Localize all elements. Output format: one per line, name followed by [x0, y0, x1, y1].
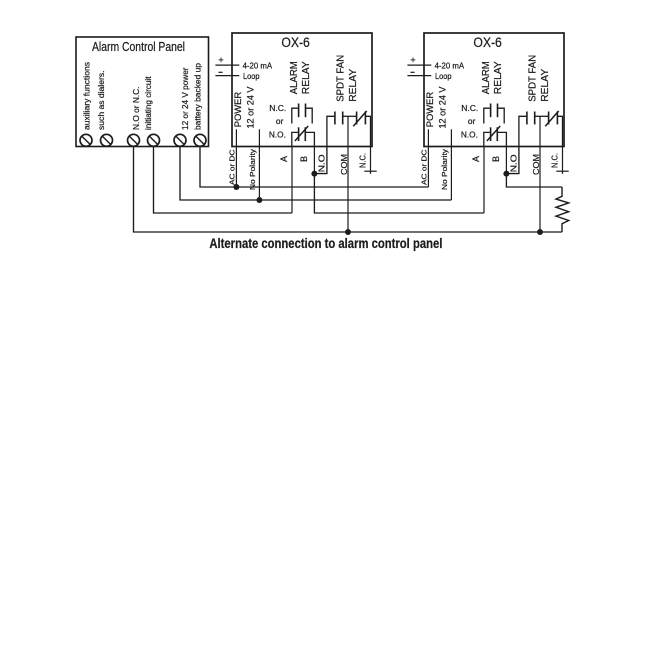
svg-text:Loop: Loop: [243, 72, 260, 81]
svg-text:+: +: [410, 55, 415, 65]
svg-text:4-20 mA: 4-20 mA: [435, 61, 465, 70]
svg-text:A: A: [279, 156, 289, 162]
svg-text:RELAY: RELAY: [348, 68, 359, 101]
U2 minus polarity mark: [410, 71, 414, 73]
U1 power terminal stub (AC or DC): [235, 129, 237, 187]
screw terminal initiating 2: [148, 134, 160, 146]
U2 SPDT fan relay contact symbol: [519, 116, 527, 146]
U2 COM terminal wire: [539, 116, 541, 232]
U2 N.C terminal stub (unused): [562, 147, 564, 174]
wire: U2 terminal B to end-of-line resistor: [506, 174, 562, 187]
svg-text:auxiliary functions: auxiliary functions: [83, 62, 92, 130]
U2 alarm relay N.O. contact symbol (to terminals A,B): [484, 132, 490, 146]
U2 terminal A wire: [483, 147, 485, 214]
U2 junction dot COM on bottom bus: [537, 229, 543, 235]
svg-text:AC or DC: AC or DC: [230, 150, 237, 186]
U1 junction dot B / N.O: [311, 171, 317, 177]
svg-text:N.C.: N.C.: [358, 153, 367, 168]
svg-text:B: B: [299, 156, 309, 162]
U1 4-20 mA loop - lead: [215, 75, 239, 77]
junction dot No-Polarity U1: [256, 197, 262, 203]
U1 minus polarity mark: [218, 71, 222, 73]
svg-text:SPDT FAN: SPDT FAN: [335, 55, 346, 102]
U1 alarm relay N.C. contact symbol: [292, 108, 298, 123]
U1 N.C terminal end tick: [364, 170, 376, 172]
svg-text:or: or: [468, 116, 476, 126]
U2 N.C terminal end tick: [556, 170, 568, 172]
svg-text:A: A: [471, 156, 481, 162]
screw terminal aux 2: [101, 134, 113, 146]
svg-text:RELAY: RELAY: [540, 68, 551, 101]
U2 terminal B wire to junction: [505, 147, 507, 174]
svg-text:initiating circuit: initiating circuit: [144, 76, 153, 130]
svg-text:such as dialers.: such as dialers.: [97, 71, 106, 131]
svg-text:N.O.: N.O.: [269, 130, 286, 140]
svg-text:+: +: [218, 55, 223, 65]
screw terminal initiating 1: [128, 134, 140, 146]
U2 junction dot B / N.O: [503, 171, 509, 177]
U1 SPDT fan relay contact symbol: [327, 116, 335, 146]
svg-text:N.O.: N.O.: [461, 130, 478, 140]
alarm control panel box: [76, 37, 209, 147]
svg-text:RELAY: RELAY: [301, 61, 312, 94]
wire: bottom bus from initiating screw 1 to resistor: [134, 146, 563, 232]
OX-6 module U2 outline: [424, 33, 564, 147]
svg-text:Alarm Control Panel: Alarm Control Panel: [92, 40, 185, 54]
svg-text:RELAY: RELAY: [493, 61, 504, 94]
svg-text:No Polarity: No Polarity: [442, 148, 449, 190]
U2 N.O terminal stub joining B: [506, 147, 519, 174]
U1 4-20 mA loop + lead: [215, 64, 239, 66]
svg-text:battery backed up: battery backed up: [194, 62, 203, 130]
svg-text:or: or: [276, 116, 284, 126]
U2 4-20 mA loop - lead: [407, 75, 431, 77]
screw terminal aux 1: [80, 134, 92, 146]
svg-text:N.O: N.O: [509, 154, 518, 172]
wire: power screw 2 to AC-or-DC bus (U1,U2): [200, 146, 428, 187]
U1 N.C terminal stub (unused): [370, 147, 372, 174]
svg-text:COM: COM: [340, 154, 349, 175]
OX-6 module U1 outline: [232, 33, 372, 147]
wire: initiating screw 2 to terminal A of U1: [154, 146, 293, 213]
U1 power terminal stub (No Polarity): [258, 129, 260, 200]
svg-text:COM: COM: [532, 154, 541, 175]
U2 power terminal stub (No Polarity): [450, 129, 452, 200]
svg-text:N.C.: N.C.: [461, 103, 478, 113]
screw terminal power 1: [174, 134, 186, 146]
U1 terminal B wire to junction: [313, 147, 315, 174]
svg-text:12 or 24 V power: 12 or 24 V power: [181, 67, 190, 130]
svg-text:4-20 mA: 4-20 mA: [243, 61, 273, 70]
svg-text:N.O: N.O: [317, 154, 326, 172]
screw terminal power 2: [194, 134, 206, 146]
wire: U1 terminal B to U2 terminal A: [314, 174, 484, 213]
wire: power screw 1 to No-Polarity bus (U1,U2): [180, 146, 451, 200]
U2 4-20 mA loop + lead: [407, 64, 431, 66]
U1 N.O terminal stub joining B: [314, 147, 327, 174]
svg-text:12 or 24 V: 12 or 24 V: [245, 86, 256, 129]
svg-text:N.O or N.C.: N.O or N.C.: [132, 87, 141, 131]
svg-text:B: B: [491, 156, 501, 162]
svg-text:OX-6: OX-6: [473, 34, 502, 50]
svg-text:Loop: Loop: [435, 72, 452, 81]
U2 alarm relay N.C. contact symbol: [484, 108, 490, 123]
svg-text:SPDT FAN: SPDT FAN: [527, 55, 538, 102]
junction dot AC-or-DC U1: [233, 184, 239, 190]
svg-text:ALARM: ALARM: [481, 61, 492, 94]
end-of-line resistor R1: [556, 187, 569, 232]
svg-text:POWER: POWER: [425, 92, 436, 128]
svg-text:N.C.: N.C.: [550, 153, 559, 168]
svg-text:N.C.: N.C.: [269, 103, 286, 113]
svg-text:No Polarity: No Polarity: [250, 148, 257, 190]
U2 power terminal stub (AC or DC): [427, 129, 429, 187]
svg-text:Alternate connection to alarm: Alternate connection to alarm control pa…: [209, 236, 442, 251]
U1 terminal A wire: [291, 147, 293, 214]
svg-text:POWER: POWER: [233, 92, 244, 128]
svg-text:ALARM: ALARM: [289, 61, 300, 94]
U1 alarm relay N.O. contact symbol (to terminals A,B): [292, 132, 298, 146]
U1 junction dot COM on bottom bus: [345, 229, 351, 235]
U1 COM terminal wire: [347, 116, 349, 232]
svg-text:OX-6: OX-6: [281, 34, 310, 50]
svg-text:12 or 24 V: 12 or 24 V: [437, 86, 448, 129]
svg-text:AC or DC: AC or DC: [422, 150, 429, 186]
